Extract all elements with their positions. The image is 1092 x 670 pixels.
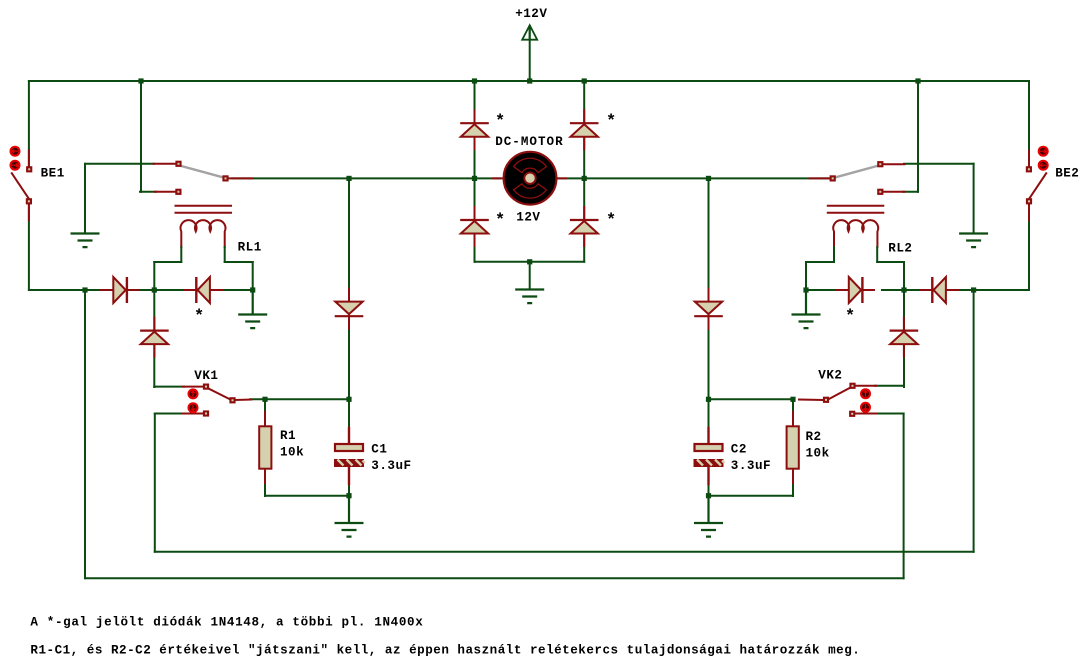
pushbutton BE2 top terminal: [1026, 166, 1032, 172]
svg-text:10k: 10k: [280, 445, 304, 459]
wire VK2 upper feed horizontal: [875, 385, 904, 387]
node A2 diode row left outer: [82, 287, 87, 292]
diode D11 1N4148 bridge bottom-left: [460, 206, 489, 247]
node VK1 common / R1 top: [262, 397, 267, 402]
diode D7 above C1: [335, 288, 364, 330]
wire node B3 vertical to bottom rail A: [973, 290, 975, 552]
wire lower-right corner up to BE2: [1028, 200, 1030, 290]
svg-text:3.3uF: 3.3uF: [731, 459, 771, 473]
wire node C2 chain vertical upper: [708, 399, 710, 430]
wire C2 top to R2 top: [709, 398, 794, 400]
motor M1 DC-MOTOR leads: [493, 177, 566, 179]
svg-text:RL2: RL2: [888, 241, 912, 255]
pushbutton BE2 lever: [1029, 173, 1046, 198]
switch VK1 actuator down: [188, 402, 199, 413]
wire node C1 chain vertical upper: [348, 399, 350, 430]
relay contact RL1 common terminal: [222, 175, 228, 181]
resistor R1 body: [259, 426, 271, 468]
wire R2 leads vertical: [792, 399, 794, 496]
switch VK2 common pin: [799, 399, 823, 402]
switch VK1 upper pin: [183, 386, 203, 388]
node B2 diode row right: [901, 287, 906, 292]
wire node B3 to lower-right corner: [974, 289, 1029, 291]
capacitor C1 negative plate hatched: [334, 459, 365, 467]
svg-text:BE1: BE1: [41, 166, 65, 180]
svg-text:*: *: [606, 211, 616, 230]
relay coil RL1 right leg wire: [224, 247, 226, 262]
diode D4 1N400x right row: [920, 277, 960, 303]
switch VK2 upper pin: [856, 385, 876, 387]
pushbutton BE1 top terminal: [26, 166, 32, 172]
wire top rail: [29, 80, 1029, 82]
relay contact RL2 common pin: [810, 177, 831, 179]
relay contact RL1 common pin: [229, 177, 253, 179]
wire R1 bottom to C1 bottom: [265, 495, 349, 497]
ground C1: [335, 496, 364, 537]
svg-text:+12V: +12V: [515, 7, 547, 21]
pushbutton BE1 top lead: [28, 151, 30, 167]
svg-text:C1: C1: [371, 443, 387, 457]
capacitor C2 negative plate hatched: [694, 459, 725, 467]
switch VK2 actuator up: [860, 388, 871, 399]
capacitor C1 positive plate: [335, 444, 363, 451]
capacitor C1 leads: [348, 428, 350, 443]
wire VK1 lower feed vertical to bottom rail A: [154, 414, 156, 552]
wire motor line right: [556, 177, 830, 179]
node bridge ground: [527, 259, 532, 264]
wire RL1 right leg horizontal: [225, 261, 253, 263]
switch VK2 lever: [828, 387, 852, 400]
relay coil RL2 core: [827, 206, 885, 213]
node motor terminal left: [472, 176, 477, 181]
wire bottom rail A: [155, 551, 974, 553]
switch VK2 common terminal: [823, 397, 829, 403]
pushbutton BE2 actuator up: [1038, 146, 1049, 157]
relay coil RL1 core: [175, 206, 233, 213]
svg-text:DC-MOTOR: DC-MOTOR: [495, 135, 563, 149]
relay coil RL2 left leg wire: [833, 247, 835, 262]
relay contact RL2 NO pin: [883, 191, 904, 193]
wire left vertical from top rail to BE1: [28, 81, 30, 170]
wire RL1 right node vertical: [252, 262, 254, 290]
ground RL2 coil: [792, 290, 821, 328]
wire motor-line branch down to node C1-top: [348, 178, 350, 399]
node C1 bottom: [346, 493, 351, 498]
wire relay feed to NO pin right: [903, 191, 918, 193]
pushbutton BE2 bottom lead: [1028, 202, 1030, 221]
wire BE1 bottom to lower-left corner: [28, 200, 30, 290]
wire node C1 chain vertical lower: [348, 483, 350, 496]
wire bottom rail B: [85, 577, 904, 579]
wire VK1 lower feed horizontal: [155, 413, 184, 415]
pushbutton BE2 top lead: [1028, 151, 1030, 167]
relay contact RL2 common terminal: [830, 175, 836, 181]
wire bridge left vertical: [474, 81, 476, 262]
relay contact RL1 lever: [181, 166, 224, 178]
wire motor-line branch down to node C2-top: [708, 178, 710, 399]
node A1 diode row left: [152, 287, 157, 292]
wire relay feed vertical right: [917, 81, 919, 192]
svg-text:R1-C1, és R2-C2 értékeivel "já: R1-C1, és R2-C2 értékeivel "játszani" ke…: [30, 644, 860, 658]
wire node C2 chain vertical lower: [708, 483, 710, 496]
switch VK1 lever: [208, 388, 232, 400]
wire relay feed vertical left: [140, 81, 142, 192]
node RL1 coil return: [250, 287, 255, 292]
wire relay common to motor line left: [232, 177, 500, 179]
relay coil RL1 left leg wire: [180, 247, 182, 262]
relay contact RL2 NC terminal: [877, 161, 883, 167]
wire relay feed to NO pin left: [140, 191, 156, 193]
switch VK2 upper terminal: [849, 383, 855, 389]
wire RL1 left node vertical: [153, 262, 155, 290]
node C2 bottom: [706, 493, 711, 498]
wire left diode row D1 cathode to node A1: [139, 289, 161, 291]
switch VK1 lower terminal: [203, 410, 209, 416]
svg-text:*: *: [845, 308, 855, 327]
svg-text:C2: C2: [731, 442, 747, 456]
wire RL1 left leg horizontal: [154, 261, 181, 263]
relay contact RL1 NO terminal: [175, 189, 181, 195]
capacitor C2 positive plate: [695, 444, 723, 451]
node VK2 common / R2 top: [790, 397, 795, 402]
svg-text:RL1: RL1: [238, 241, 262, 255]
wire right BE ground branch horizontal: [904, 163, 974, 165]
relay contact RL2 NC pin: [883, 163, 904, 165]
diode D3 1N4148 across RL2 coil: [835, 277, 875, 303]
diode D6 above VK2: [890, 317, 919, 358]
resistor R2 body: [787, 426, 799, 468]
svg-text:VK1: VK1: [194, 369, 218, 383]
pushbutton BE2 actuator down: [1038, 160, 1049, 171]
svg-text:*: *: [495, 113, 505, 132]
wire node A1 to VK1 upper feed vertical: [153, 290, 155, 387]
diode D2 1N4148 across RL1 coil: [184, 277, 224, 303]
wire right diode row node B1 to D3 anode: [806, 289, 834, 291]
wire bridge ground stem: [529, 262, 531, 290]
ground motor bridge: [515, 290, 544, 304]
node RL2 coil return: [803, 287, 808, 292]
wire RL2 right node vertical: [903, 262, 905, 290]
wire R1 leads vertical: [264, 399, 266, 496]
wire left BE ground branch vertical: [84, 164, 86, 234]
node top rail / relay feed right: [915, 78, 920, 83]
wire C2 bottom to R2 bottom: [709, 495, 794, 497]
diode D5 above VK1: [140, 317, 169, 358]
capacitor C2 leads: [707, 428, 709, 443]
wire bridge bottom: [475, 261, 585, 263]
svg-text:R1: R1: [280, 429, 296, 443]
ground right BE branch: [959, 234, 988, 248]
svg-text:10k: 10k: [806, 446, 830, 460]
power +12V symbol: [522, 25, 537, 40]
switch VK1 common terminal: [229, 397, 235, 403]
wire RL2 left leg horizontal: [806, 261, 834, 263]
node motor terminal right: [582, 176, 587, 181]
diode D9 1N4148 bridge top-left: [460, 109, 489, 150]
pushbutton BE1 actuator down: [10, 160, 21, 171]
node top rail / relay feed left: [138, 78, 143, 83]
pushbutton BE1 lever: [12, 173, 29, 198]
switch VK1 lower pin: [183, 413, 203, 415]
svg-text:12V: 12V: [516, 211, 540, 225]
ground C2: [694, 496, 723, 537]
diode D8 above C2: [694, 288, 723, 330]
switch VK1 actuator up: [188, 388, 199, 399]
switch VK1 upper terminal: [203, 384, 209, 390]
wire RL2 right leg horizontal: [877, 261, 904, 263]
wire diode D2 anode to RL1 right node: [223, 289, 253, 291]
wire VK1 upper feed horizontal: [154, 386, 184, 388]
switch VK1 common pin: [235, 399, 252, 402]
relay contact RL1 NC terminal: [175, 161, 181, 167]
wire node A1 to diode D2 cathode: [154, 289, 196, 291]
diode D12 1N4148 bridge bottom-right: [570, 206, 599, 247]
wire D3 cathode to node B2: [882, 289, 920, 291]
pushbutton BE1 bottom lead: [28, 202, 30, 221]
wire node A2 vertical to bottom rail B: [84, 290, 86, 578]
diode D1 1N400x left row: [100, 277, 140, 303]
wire RL2 left node vertical: [805, 262, 807, 290]
relay coil RL2 right leg wire: [876, 247, 878, 262]
wire left BE ground branch horizontal: [85, 163, 154, 165]
wire right BE ground branch vertical: [973, 164, 975, 234]
wire VK1 common to node R1-top: [250, 398, 349, 400]
wire right vertical from top rail to BE2: [1028, 81, 1030, 170]
svg-text:R2: R2: [806, 430, 822, 444]
relay contact RL2 NO terminal: [877, 189, 883, 195]
relay coil RL1 winding: [181, 220, 226, 248]
wire D4 row segment: [944, 289, 974, 291]
relay contact RL1 NC pin: [154, 163, 176, 165]
node C1 top: [346, 397, 351, 402]
svg-text:VK2: VK2: [818, 369, 842, 383]
relay contact RL1 NO pin: [155, 191, 176, 193]
svg-text:*: *: [606, 113, 616, 132]
ground RL1 coil: [238, 290, 267, 328]
svg-text:3.3uF: 3.3uF: [371, 459, 411, 473]
switch VK2 lower pin: [855, 413, 876, 415]
wire +12V stem: [529, 27, 531, 81]
diode D10 1N4148 bridge top-right: [570, 109, 599, 150]
svg-text:BE2: BE2: [1055, 166, 1079, 180]
node C2 top: [706, 397, 711, 402]
wire bridge right vertical: [583, 81, 585, 262]
resistor R1 leads: [264, 412, 266, 483]
node B3 diode row right outer: [971, 287, 976, 292]
wire lower-left corner to node D1-anode: [29, 289, 160, 291]
svg-text:*: *: [495, 211, 505, 230]
node motor line / C2 branch: [706, 176, 711, 181]
ground left BE branch: [71, 234, 100, 248]
node top rail / +12V: [527, 78, 532, 83]
pushbutton BE1 bottom terminal: [26, 198, 32, 204]
svg-text:A *-gal jelölt diódák 1N4148,: A *-gal jelölt diódák 1N4148, a többi pl…: [30, 616, 423, 630]
pushbutton BE2 bottom terminal: [1026, 198, 1032, 204]
wire VK2 lower feed horizontal: [875, 413, 904, 415]
motor M1 DC-MOTOR body: [504, 152, 557, 205]
svg-text:*: *: [194, 308, 204, 327]
node top rail / bridge left: [472, 78, 477, 83]
wire VK2 lower feed vertical to bottom rail B: [903, 414, 905, 579]
relay contact RL2 lever: [835, 166, 878, 178]
node motor line / C1 branch: [346, 176, 351, 181]
switch VK2 lower terminal: [849, 411, 855, 417]
resistor R2 leads: [792, 412, 794, 483]
wire node B2 to VK2 upper feed vertical: [903, 290, 905, 387]
pushbutton BE1 actuator up: [10, 146, 21, 157]
relay coil RL2 winding: [833, 220, 878, 248]
switch VK2 actuator down: [860, 402, 871, 413]
node top rail / bridge right: [582, 78, 587, 83]
